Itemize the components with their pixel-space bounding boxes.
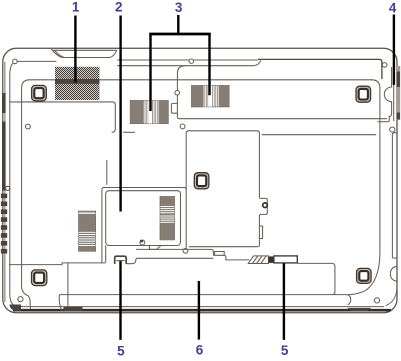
battery bay lip lines — [136, 249, 213, 255]
screw circle right edge below panel — [390, 127, 395, 132]
bay divider tab — [259, 226, 262, 239]
svg-text:2: 2 — [115, 0, 123, 15]
rubber foot bottom-left — [32, 270, 47, 286]
outer case outline — [3, 48, 397, 313]
battery top mid edge — [126, 258, 213, 263]
screw circle top-right — [382, 63, 387, 68]
rubber foot top-left — [32, 85, 47, 101]
bottom-left screw circle — [18, 297, 23, 302]
leader line 6 (battery) — [198, 281, 200, 340]
screw circle on upper line — [189, 59, 193, 63]
svg-text:5: 5 — [117, 343, 125, 358]
leader line 4 (right edge slot) — [393, 15, 395, 85]
left inner case line — [10, 63, 17, 306]
line from circle to hinge bump — [17, 60, 56, 62]
memory cover panel — [106, 191, 181, 246]
battery bay outline — [186, 131, 267, 248]
leader line 2 (memory cover) — [119, 16, 121, 212]
screw circle left — [26, 124, 31, 129]
leader 3 bracket bar — [149, 33, 211, 36]
leader line 5 right (battery latch) — [283, 263, 285, 340]
svg-text:1: 1 — [72, 0, 80, 15]
CPU panel (top right) — [177, 66, 185, 117]
deck line left of battery — [9, 263, 106, 265]
screw circle below panel left — [180, 124, 185, 129]
lip tab — [215, 252, 225, 256]
screw circle on CPU panel left edge — [175, 90, 180, 95]
svg-text:6: 6 — [196, 343, 204, 358]
right edge gray band — [397, 66, 400, 120]
leader 3 left branch (fan vent A) — [149, 35, 151, 111]
svg-text:5: 5 — [281, 343, 289, 358]
fan vent A (left, label 3) — [130, 100, 169, 124]
leader line 5 left (latch) — [119, 261, 121, 340]
right edge dark marks — [397, 72, 400, 88]
merged upper line to right — [258, 59, 382, 79]
leader line 1 (speaker) — [74, 16, 76, 83]
left edge dark shading lower — [2, 122, 6, 191]
main deck panel — [22, 80, 380, 295]
top-left screw circle — [13, 59, 18, 64]
memory cover screw — [140, 240, 145, 245]
bottom-right screw circle — [374, 298, 379, 303]
latch 5L — [115, 256, 127, 264]
hinge bump — [53, 49, 117, 51]
battery outline — [67, 262, 69, 310]
tab on CPU panel left edge — [171, 103, 177, 113]
vent D (left of memory cover) — [78, 211, 96, 252]
case bottom thin inner line — [12, 306, 384, 308]
battery latch 5R — [248, 256, 297, 264]
left edge screw circle — [6, 186, 10, 190]
bottom edge dark pad left — [64, 307, 83, 311]
bay lower-right line — [262, 134, 377, 136]
left edge dark shading upper — [2, 93, 6, 113]
bay circle bottom-right — [183, 248, 188, 253]
vent C (in memory cover) — [160, 196, 175, 240]
right inner double lines — [392, 133, 397, 258]
inner bottom line / battery bottom shelf — [59, 295, 351, 311]
speaker grille — [55, 67, 99, 100]
left edge port ladder — [1, 194, 7, 199]
CPU panel right edge with semicircle notch — [384, 67, 391, 122]
rubber foot battery bay — [194, 173, 209, 189]
rubber foot top-right — [356, 86, 371, 102]
HDD sub panel — [10, 102, 115, 132]
svg-text:4: 4 — [389, 0, 397, 15]
bottom-left corner dark fill — [10, 305, 22, 312]
memory cover tab — [149, 246, 161, 250]
leader 3 right branch (fan vent B) — [208, 35, 210, 95]
rubber foot bottom-right — [357, 268, 372, 283]
leader line 3 stub — [177, 15, 179, 33]
bay divider notch screw — [263, 203, 268, 208]
top pair lines right of bump — [117, 59, 257, 61]
case bottom thick dark edge — [13, 309, 391, 312]
left edge inner double line — [4, 62, 6, 302]
svg-text:3: 3 — [175, 0, 183, 15]
bottom edge dark pad right — [347, 308, 371, 312]
fan vent B (right, label 3) — [191, 85, 230, 107]
